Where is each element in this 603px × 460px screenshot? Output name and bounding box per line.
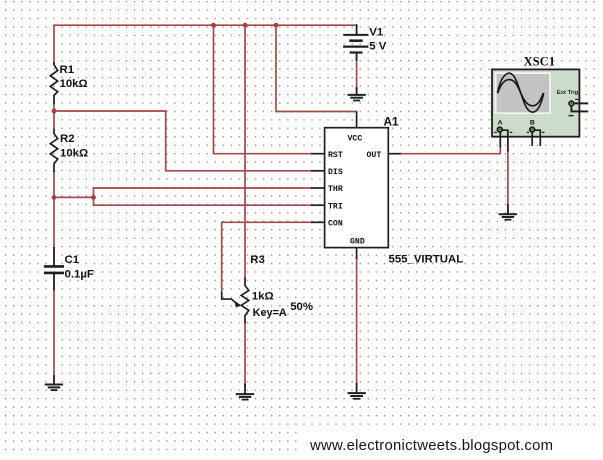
svg-text:TRI: TRI (328, 202, 343, 211)
node: junction top rail to R3 drop (243, 23, 248, 28)
wire: top VCC rail from R1 top to V1 plus (54, 25, 357, 63)
wire: OUT pin to scope A (401, 147, 500, 154)
scope trace sine inner (498, 80, 544, 106)
wire: R2 bottom to C1 top (53, 171, 55, 248)
wire: CON pin to wiper (222, 222, 311, 293)
svg-text:R3: R3 (250, 254, 265, 266)
pin VCC stub (356, 112, 358, 128)
pin TRI stub (311, 204, 325, 206)
potentiometer R3 body (241, 279, 249, 323)
svg-text:B: B (530, 120, 535, 127)
node: junction top rail to VCC pin drop (274, 23, 279, 28)
svg-text:RST: RST (328, 151, 343, 160)
pin DIS stub (311, 170, 325, 172)
node: R2/C1 junction (52, 195, 57, 200)
wire: 555 GND pin to ground (356, 258, 358, 384)
pin THR stub (311, 187, 325, 189)
wire stub: B plus down (531, 132, 533, 146)
svg-text:5 V: 5 V (369, 40, 386, 52)
terminal B (530, 127, 535, 132)
svg-text:GND: GND (350, 238, 365, 247)
wire: R1 bottom to R2 top (53, 103, 55, 130)
potentiometer R3 wiper (222, 293, 236, 303)
wire: R1/R2 junction to DIS pin (54, 111, 311, 171)
svg-text:VCC: VCC (348, 134, 363, 143)
ground (scope) (507, 205, 509, 214)
wire: top rail drop to R3 top (244, 25, 246, 278)
pin GND stub (356, 248, 358, 259)
svg-text:C1: C1 (65, 254, 80, 266)
scope trace sine outer (498, 73, 544, 112)
svg-text:Key=A: Key=A (253, 307, 287, 319)
oscilloscope XSC1 (492, 69, 588, 151)
wire: scope A minus to ground (507, 151, 509, 206)
svg-text:A: A (498, 120, 503, 127)
svg-text:R2: R2 (60, 133, 75, 145)
wire stub: A minus to down leg (502, 130, 508, 151)
node: junction top rail to RST drop (211, 23, 216, 28)
wire: C1 bottom to ground (53, 290, 55, 377)
white label area bottom right (302, 429, 603, 460)
wire: R3 bottom to ground (244, 323, 246, 385)
ground (555) (356, 384, 358, 393)
svg-text:Ext Trig: Ext Trig (557, 90, 579, 96)
svg-text:1kΩ: 1kΩ (252, 291, 274, 303)
wire: to THR pin (94, 187, 312, 189)
terminal A (498, 127, 503, 132)
svg-text:V1: V1 (369, 27, 384, 39)
svg-text:10kΩ: 10kΩ (60, 147, 88, 159)
capacitor C1 (53, 248, 55, 265)
svg-text:OUT: OUT (367, 151, 382, 160)
wire: to TRI pin (94, 204, 312, 206)
wire: R2/C1 junction tap to THR/TRI split (54, 196, 94, 198)
svg-text:10kΩ: 10kΩ (60, 78, 88, 90)
svg-text:555_VIRTUAL: 555_VIRTUAL (389, 254, 464, 266)
ground (C1) (53, 376, 55, 383)
svg-text:THR: THR (328, 185, 343, 194)
ground (V1) (356, 88, 358, 94)
resistor R2 (50, 130, 57, 172)
wire stub: A plus down (499, 132, 501, 148)
wire: V1 minus to ground (356, 58, 358, 89)
potentiometer wiper arrowhead (234, 301, 241, 308)
svg-text:www.electronictweets.blogspot.: www.electronictweets.blogspot.com (309, 438, 553, 454)
ground (R3) (244, 384, 246, 393)
svg-text:50%: 50% (290, 301, 313, 313)
resistor R1 (50, 63, 57, 103)
svg-text:CON: CON (328, 220, 343, 229)
Ext Trig terminal (569, 101, 574, 106)
pin OUT stub (388, 153, 401, 155)
pin CON stub (311, 221, 325, 223)
battery V1 (356, 25, 358, 34)
wire: split vertical (93, 188, 95, 205)
wire: top rail drop to VCC pin (276, 25, 357, 111)
wire: top rail drop to RST pin (214, 25, 312, 154)
svg-text:A1: A1 (384, 114, 400, 128)
svg-text:R1: R1 (60, 64, 75, 76)
svg-text:DIS: DIS (328, 168, 343, 177)
svg-text:XSC1: XSC1 (524, 55, 556, 69)
op-amp U1: 555 timer box A1 (311, 112, 401, 260)
svg-text:0.1µF: 0.1µF (65, 269, 94, 281)
pin RST stub (311, 153, 325, 155)
node: THR/TRI split junction (91, 195, 96, 200)
wire stub: B minus down (535, 130, 541, 146)
node: R1/R2 junction (52, 109, 57, 114)
